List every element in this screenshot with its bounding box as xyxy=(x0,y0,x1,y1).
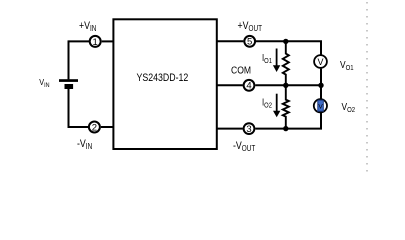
svg-text:COM: COM xyxy=(231,65,251,76)
wire pin 2 to U1 left edge xyxy=(101,126,114,128)
net label VIN (battery) xyxy=(39,78,49,90)
svg-text:-VOUT: -VOUT xyxy=(233,140,256,153)
label VO1 xyxy=(340,59,354,72)
wire voltmeter VO2 bottom to -Vout rail xyxy=(320,113,322,129)
wire U1 right edge to pin 3 xyxy=(217,128,243,130)
pin 1 (+Vin input) xyxy=(90,36,101,48)
wire COM rail to voltmeter VO2 top xyxy=(320,85,322,99)
label VO2 xyxy=(342,101,356,114)
wire battery positive lead (vertical) xyxy=(68,40,70,79)
wire -Vin: battery bottom corner to pin 2 xyxy=(69,126,89,128)
svg-text:VO1: VO1 xyxy=(340,59,354,72)
junction node COM/meters xyxy=(318,83,323,88)
net label +VOUT xyxy=(238,20,263,33)
load resistor R1 (+Vout to COM) xyxy=(283,41,289,85)
svg-text:3: 3 xyxy=(246,124,251,135)
svg-text:VO2: VO2 xyxy=(342,101,356,114)
svg-text:IO1: IO1 xyxy=(262,52,272,65)
wire +Vout rail: pin 5 to voltmeter corner xyxy=(256,41,322,54)
svg-text:+VOUT: +VOUT xyxy=(238,20,263,33)
svg-text:YS243DD-12: YS243DD-12 xyxy=(137,72,189,84)
svg-text:5: 5 xyxy=(247,37,252,48)
battery VIN positive plate xyxy=(59,79,78,82)
junction node COM/R1-R2 xyxy=(283,83,288,88)
voltmeter VO2 (selected, highlighted V) xyxy=(314,99,327,112)
svg-text:-VIN: -VIN xyxy=(77,138,92,151)
pin 3 (-Vout output) xyxy=(244,123,255,135)
voltmeter V (VO1) xyxy=(314,55,327,68)
wire -Vout rail: pin 3 to meter column xyxy=(255,128,322,130)
svg-text:V: V xyxy=(318,103,323,110)
junction node +Vout/R1 xyxy=(283,39,288,44)
wire U1 right edge to pin 4 xyxy=(217,84,243,86)
pin 2 (-Vin input) xyxy=(89,122,100,134)
svg-text:VIN: VIN xyxy=(39,78,49,90)
pin 5 (+Vout output) xyxy=(244,36,255,48)
pin 4 (COM output) xyxy=(244,80,255,92)
svg-text:+VIN: +VIN xyxy=(79,20,96,33)
svg-text:4: 4 xyxy=(246,81,251,92)
current label IO2 xyxy=(262,97,272,110)
net label -VOUT xyxy=(233,140,256,153)
U1 part number label YS243DD-12 xyxy=(137,72,189,84)
battery VIN negative plate xyxy=(65,84,74,89)
wire pin 1 to U1 left edge xyxy=(102,40,114,42)
wire voltmeter VO1 bottom to COM rail xyxy=(320,69,322,86)
wire battery negative lead (vertical) xyxy=(68,89,70,128)
DC/DC converter module U1 body xyxy=(113,19,216,149)
net label COM xyxy=(231,65,251,76)
svg-text:IO2: IO2 xyxy=(262,97,272,110)
net label -VIN xyxy=(77,138,92,151)
load resistor R2 (COM to -Vout) xyxy=(283,85,289,128)
current label IO1 xyxy=(262,52,272,65)
junction node -Vout/R2 xyxy=(283,126,288,131)
wire COM rail: pin 4 to meter column xyxy=(255,84,322,86)
wire U1 right edge to pin 5 xyxy=(217,40,244,42)
svg-text:2: 2 xyxy=(92,122,97,133)
svg-text:1: 1 xyxy=(93,37,98,48)
current arrow IO1 xyxy=(273,49,280,73)
wire +Vin: battery top corner to pin 1 xyxy=(69,40,90,42)
current arrow IO2 xyxy=(273,94,280,118)
svg-text:V: V xyxy=(317,57,323,67)
net label +VIN xyxy=(79,20,96,33)
